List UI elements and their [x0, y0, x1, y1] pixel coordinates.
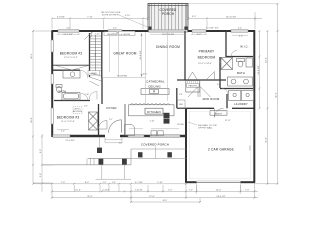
svg-text:7'-0": 7'-0"	[168, 190, 173, 192]
wic bottom wall	[226, 56, 253, 58]
windows front wall	[128, 135, 144, 137]
right wall	[253, 30, 255, 182]
bottom dim lines	[33, 184, 258, 203]
primary bath fixtures	[221, 58, 253, 87]
svg-text:BENCH: BENCH	[215, 113, 223, 115]
pantry	[186, 81, 200, 93]
mud-laundry bottom wall	[177, 107, 214, 109]
great room vertical dim	[141, 33, 143, 77]
stair right wall / great room left	[101, 31, 103, 78]
svg-text:5'-4 3/4": 5'-4 3/4"	[103, 190, 110, 192]
svg-text:4'-1 3/4" S.H.: 4'-1 3/4" S.H.	[206, 28, 219, 30]
svg-text:2 CAR GARAGE: 2 CAR GARAGE	[208, 148, 234, 152]
svg-text:13'-4" X 14'-0": 13'-4" X 14'-0"	[198, 63, 212, 65]
left wall	[51, 30, 53, 137]
svg-text:16'-0": 16'-0"	[216, 190, 222, 192]
window dim marks inside rooms	[57, 34, 248, 129]
bath bottom wall	[220, 88, 253, 90]
svg-text:SLOPE 1/8" PER FT: SLOPE 1/8" PER FT	[102, 14, 120, 16]
covered porch (top) deck boards	[148, 4, 278, 31]
svg-text:FLUSH BM: FLUSH BM	[117, 76, 127, 78]
svg-text:PANTRY: PANTRY	[188, 85, 197, 88]
stair winders	[90, 73, 102, 86]
primary bottom wall	[177, 79, 226, 81]
svg-text:ACCESS: ACCESS	[73, 110, 83, 113]
svg-text:OF PNY WALL: OF PNY WALL	[198, 127, 213, 130]
windows left wall	[51, 40, 53, 124]
front wall segments	[70, 135, 105, 137]
right dim lines	[255, 4, 278, 184]
garage bottom corners	[185, 181, 196, 183]
bedroom3 closet	[89, 112, 98, 130]
svg-text:14'-4 3/4": 14'-4 3/4"	[140, 50, 142, 59]
svg-text:DINING ROOM: DINING ROOM	[156, 45, 180, 49]
porch posts	[97, 148, 172, 165]
garage left wall	[185, 108, 187, 182]
kitchen	[125, 89, 175, 136]
svg-text:6'-0": 6'-0"	[67, 28, 71, 30]
bedroom3 right wall	[98, 104, 100, 137]
laundry/mud wall	[226, 94, 228, 108]
svg-text:5'-0": 5'-0"	[192, 16, 197, 18]
laundry W/D	[229, 91, 254, 101]
bath / bedroom3 wall	[54, 100, 90, 102]
ref closet	[178, 100, 186, 109]
svg-text:2'-10: 2'-10	[95, 34, 101, 36]
svg-text:5'-10": 5'-10"	[157, 182, 163, 184]
exterior walls	[52, 30, 255, 182]
svg-text:19'-4": 19'-4"	[266, 57, 268, 63]
svg-text:ATTIC: ATTIC	[74, 108, 81, 111]
svg-text:4X6 WALL TO TOP: 4X6 WALL TO TOP	[198, 124, 217, 127]
svg-text:6'-7 3/4": 6'-7 3/4"	[135, 182, 143, 184]
svg-text:15'-3": 15'-3"	[75, 190, 81, 192]
svg-text:12'-3 3/4": 12'-3 3/4"	[65, 140, 74, 142]
svg-text:BEDROOM #2: BEDROOM #2	[60, 52, 83, 56]
svg-text:5'-1": 5'-1"	[109, 119, 113, 121]
bench	[210, 111, 227, 116]
front door + swing	[109, 120, 122, 133]
svg-text:4'-6": 4'-6"	[238, 28, 242, 30]
svg-text:PRIMARY: PRIMARY	[199, 50, 215, 54]
svg-text:41'-0": 41'-0"	[276, 92, 278, 98]
svg-text:ALIGN: ALIGN	[124, 33, 131, 36]
kitchen right wall	[176, 88, 178, 108]
svg-text:12'-0" X 11'-2": 12'-0" X 11'-2"	[64, 57, 78, 59]
svg-text:4'-6": 4'-6"	[239, 36, 244, 38]
driveway	[197, 183, 241, 194]
svg-text:2'-6": 2'-6"	[84, 105, 88, 107]
dining / primary wall	[184, 31, 186, 80]
svg-text:10'-5": 10'-5"	[163, 200, 168, 202]
bedroom3 door	[99, 121, 108, 130]
svg-text:4'-0": 4'-0"	[61, 131, 65, 133]
svg-text:11'-0" X 11'-8": 11'-0" X 11'-8"	[61, 121, 75, 123]
window bedroom3 front	[53, 135, 70, 137]
svg-text:4'-0": 4'-0"	[119, 143, 123, 145]
svg-text:5'-10": 5'-10"	[125, 15, 131, 17]
svg-text:5'-10 3/4": 5'-10 3/4"	[135, 190, 143, 192]
svg-text:21'-8": 21'-8"	[250, 145, 252, 150]
svg-text:8'-0": 8'-0"	[217, 84, 221, 86]
svg-text:9'-0": 9'-0"	[40, 149, 42, 154]
svg-text:23'-4 1/2": 23'-4 1/2"	[216, 196, 225, 198]
svg-text:17'-0": 17'-0"	[149, 196, 155, 198]
svg-text:7'-0": 7'-0"	[245, 190, 250, 192]
windows top wall	[58, 30, 248, 32]
svg-text:COVERED PORCH: COVERED PORCH	[141, 143, 169, 147]
svg-text:BATH: BATH	[237, 71, 245, 75]
great room header boxes	[104, 32, 117, 36]
svg-text:FLUSH: FLUSH	[177, 124, 184, 126]
covered porch bottom	[43, 137, 186, 179]
svg-text:BEDROOM #3: BEDROOM #3	[57, 116, 80, 120]
foyer right wall	[124, 104, 126, 136]
front door leaf	[121, 120, 123, 133]
cathedral ceiling lines	[103, 32, 168, 105]
bath left fixtures	[56, 70, 80, 100]
svg-text:CATHEDRAL: CATHEDRAL	[146, 79, 165, 83]
svg-text:CEILING: CEILING	[148, 84, 161, 88]
svg-text:LAUNDRY: LAUNDRY	[234, 102, 248, 106]
top dim line	[52, 12, 255, 29]
interior walls	[53, 31, 254, 137]
svg-text:12'-7 3/4": 12'-7 3/4"	[63, 34, 72, 36]
bedroom2 door	[85, 32, 93, 40]
primary right wall	[225, 31, 227, 57]
attic access	[73, 107, 82, 114]
svg-text:7'-0": 7'-0"	[61, 182, 66, 184]
svg-text:7'-0": 7'-0"	[189, 190, 193, 192]
svg-text:16'-0": 16'-0"	[143, 74, 148, 76]
kitchen posts	[164, 113, 170, 118]
svg-text:14'-4 3/4": 14'-4 3/4"	[258, 65, 260, 74]
svg-text:W.I.C.: W.I.C.	[240, 45, 249, 49]
svg-text:16'-10 3/4": 16'-10 3/4"	[226, 16, 237, 18]
svg-text:PORCH: PORCH	[162, 12, 175, 16]
bedroom2 / bath wall	[53, 69, 80, 71]
bath left wall	[219, 57, 221, 88]
svg-text:3'-6": 3'-6"	[179, 94, 183, 96]
garage inner face line	[189, 112, 251, 179]
front stoop steps	[105, 137, 122, 143]
svg-text:7'-10": 7'-10"	[87, 16, 93, 18]
svg-text:2'-4": 2'-4"	[112, 182, 116, 184]
svg-text:3'-0": 3'-0"	[113, 34, 117, 36]
svg-text:5'-4": 5'-4"	[40, 173, 42, 178]
top wall	[52, 30, 255, 32]
svg-text:7'-10": 7'-10"	[150, 121, 155, 123]
svg-text:GREAT ROOM: GREAT ROOM	[113, 52, 136, 56]
svg-text:21'-8": 21'-8"	[225, 120, 231, 122]
svg-text:BEDROOM: BEDROOM	[198, 55, 216, 59]
svg-text:2'-4": 2'-4"	[103, 182, 107, 184]
stair left wall	[89, 33, 91, 77]
svg-text:16'-0" SLDR: 16'-0" SLDR	[162, 34, 174, 36]
svg-text:KITCHEN: KITCHEN	[147, 110, 161, 114]
svg-text:31'-2": 31'-2"	[87, 196, 93, 198]
svg-text:FOYER: FOYER	[106, 106, 116, 110]
hall wall below stairs	[101, 78, 103, 104]
left dim lines	[33, 31, 53, 183]
svg-text:26'-8": 26'-8"	[31, 117, 33, 123]
svg-text:BATH: BATH	[59, 90, 67, 94]
garage entry door	[215, 108, 224, 117]
porch posts	[97, 148, 102, 153]
svg-text:41'-0": 41'-0"	[31, 53, 33, 59]
svg-text:MUD ROOM: MUD ROOM	[203, 97, 220, 101]
bath doors small arcs	[80, 51, 237, 101]
svg-text:4'-0": 4'-0"	[197, 34, 202, 36]
svg-text:4'-0": 4'-0"	[113, 28, 117, 30]
mud hall door swings	[188, 72, 215, 98]
bedroom2 closet doors	[55, 65, 89, 70]
svg-text:21'-8": 21'-8"	[266, 137, 268, 143]
svg-text:8'-3": 8'-3"	[85, 182, 90, 184]
garage door	[197, 181, 241, 183]
stairs treads	[90, 35, 102, 74]
svg-text:5'-8 3/4": 5'-8 3/4"	[57, 16, 65, 18]
